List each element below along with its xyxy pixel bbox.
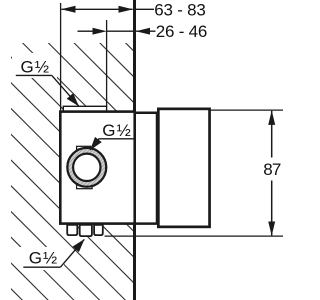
top G1/2 port plate — [63, 106, 106, 111]
dimension 26-46: extension line — [106, 20, 108, 107]
leader line bottom label — [23, 266, 60, 268]
dimension 87: vertical line + arrows — [271, 111, 273, 158]
handle — [158, 109, 209, 227]
svg-text:G½: G½ — [102, 121, 131, 140]
inner circle — [73, 154, 100, 181]
clearance mask bottom label — [20, 247, 64, 270]
dimension 63-83: extension line — [60, 3, 62, 110]
side port ring — [70, 151, 103, 184]
valve body — [60, 112, 134, 224]
nut facet left — [67, 225, 77, 235]
svg-text:87: 87 — [263, 160, 281, 179]
dimension 87: extension lines — [209, 109, 283, 111]
clearance mask top label — [12, 53, 57, 78]
svg-text:G½: G½ — [29, 249, 58, 268]
escutcheon — [134, 113, 157, 224]
leader line top label — [16, 74, 52, 76]
outer circle — [67, 148, 106, 187]
side port top tab — [77, 146, 91, 151]
svg-text:G½: G½ — [20, 57, 49, 76]
side port bottom tab — [77, 183, 93, 189]
nut facet right — [94, 225, 103, 235]
dimension 63-83: line + arrows — [136, 8, 154, 10]
leader line middle label — [99, 138, 134, 140]
wall face line — [133, 0, 136, 300]
svg-text:26 - 46: 26 - 46 — [156, 22, 208, 41]
dimension 26-46: line + arrows — [78, 30, 94, 32]
svg-text:63 - 83: 63 - 83 — [154, 0, 206, 19]
nut facet center — [80, 225, 92, 236]
